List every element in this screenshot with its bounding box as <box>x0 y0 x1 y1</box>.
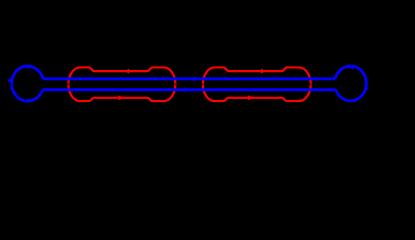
arrow on loop2 bottom edge (pointing right) <box>248 95 253 100</box>
blue top line <box>43 77 335 80</box>
direction tick on left bulb, top (pointing left) <box>24 65 30 69</box>
arrow on loop1 top edge (pointing left) <box>124 69 129 74</box>
blue curve: left bulb (C shape opening right) <box>12 66 43 101</box>
tip gap dot loop1 right <box>175 83 177 85</box>
blue curve: right bulb (C shape opening left) <box>335 66 366 101</box>
red curve: loop 2 (bone-shaped closed curve, translate of loop1 by +134.5) <box>203 67 311 101</box>
direction tick on left bulb, bottom (pointing right) <box>27 99 34 102</box>
tip gap dot loop2 right <box>309 83 311 85</box>
arrow on blue top line (pointing left) <box>190 76 195 81</box>
tip gap dot loop1 left <box>67 83 69 85</box>
arrow on loop1 bottom edge (pointing right) <box>118 95 123 100</box>
direction tick on right bulb, top (pointing left) <box>348 65 354 69</box>
edge gap dot left bulb <box>11 84 13 86</box>
direction tick on left bulb, upper-left (pointing down-left) <box>8 78 12 82</box>
direction tick on right bulb, right side (pointing up) <box>365 85 369 90</box>
arrow on blue bottom line (pointing right) <box>184 87 189 92</box>
red curve: loop 1 (bone-shaped closed curve) <box>68 67 175 101</box>
blue bottom line <box>43 88 336 91</box>
tip gap dot loop2 left <box>202 83 204 85</box>
arrow on loop2 top edge (pointing left) <box>258 69 263 74</box>
